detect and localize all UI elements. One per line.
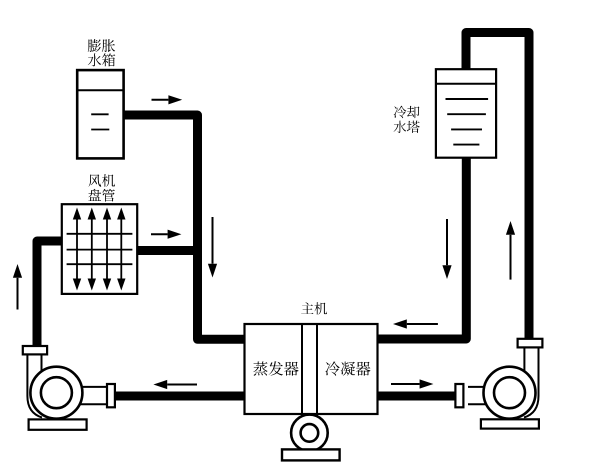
pump P3 body (291, 415, 328, 452)
cooling tower body (436, 69, 496, 158)
pump P1 outlet flange (107, 384, 115, 407)
pump P1 base (29, 419, 87, 429)
pump P2 inlet flange (455, 384, 463, 407)
arrow: flow right from condenser to pump P2 (391, 379, 433, 388)
pump P2 outlet tube (524, 347, 539, 417)
fan coil unit body (62, 204, 137, 294)
arrow: flow down in chilled-water supply pipe (208, 217, 217, 278)
pipe: fan coil left inlet, left then down to pump P1 (37, 241, 64, 348)
pump P1 inlet tube (27, 354, 42, 418)
expansion tank water level marks (91, 114, 109, 129)
pump P1 outlet tube (72, 387, 108, 404)
arrow: flow down from cooling tower (442, 219, 451, 279)
pump P2 outlet flange (518, 339, 543, 348)
pump P1 inlet flange (23, 346, 47, 354)
pump P2 base (481, 419, 539, 428)
fan coil tube rows (67, 234, 133, 264)
label 主机 (main unit) (301, 302, 327, 314)
label 冷却 (cooling) (394, 106, 420, 118)
label 膨胀 (expansion) (88, 39, 115, 52)
pipe: cooling tower top loop from pump P2 riser (466, 33, 529, 342)
arrow: flow left from cooling tower into condenser (393, 319, 438, 328)
label 风机 (fan) (88, 174, 115, 187)
main unit (chiller) body (245, 324, 378, 414)
pipe: fan coil outlet to down-pipe (135, 246, 198, 255)
arrow: flow up to cooling tower (506, 221, 515, 280)
pipe: pump P1 outlet to evaporator bottom (112, 392, 245, 401)
cooling tower fill marks (446, 99, 489, 145)
arrow: flow right from expansion tank (152, 95, 183, 104)
arrow: flow up to fan coil (13, 264, 22, 310)
pipe: condenser top to cooling tower bottom (377, 156, 466, 339)
fan coil air-flow double arrows (73, 208, 126, 291)
label 水箱 (water tank) (88, 53, 115, 66)
pump P3 connector lines (302, 414, 317, 417)
label 盘管 (coil) (88, 189, 114, 202)
arrow: flow left from evaporator to pump P1 (153, 380, 197, 389)
arrow: flow right from fan coil (151, 230, 181, 239)
pipe: condenser bottom to pump P2 inlet (377, 392, 458, 401)
label 蒸发器 (evaporator) (253, 361, 298, 375)
pump P1 body (30, 367, 82, 419)
pump P3 base (282, 449, 340, 460)
label 水塔 (water tower) (394, 121, 420, 133)
main unit divider lines (302, 324, 317, 414)
pump P2 inlet tube (468, 387, 494, 404)
pipe: expansion tank outlet, right then down then right into evaporator top (120, 115, 245, 339)
expansion tank body (77, 70, 123, 158)
pump P2 body (484, 367, 536, 419)
label 冷凝器 (condenser) (325, 361, 370, 375)
